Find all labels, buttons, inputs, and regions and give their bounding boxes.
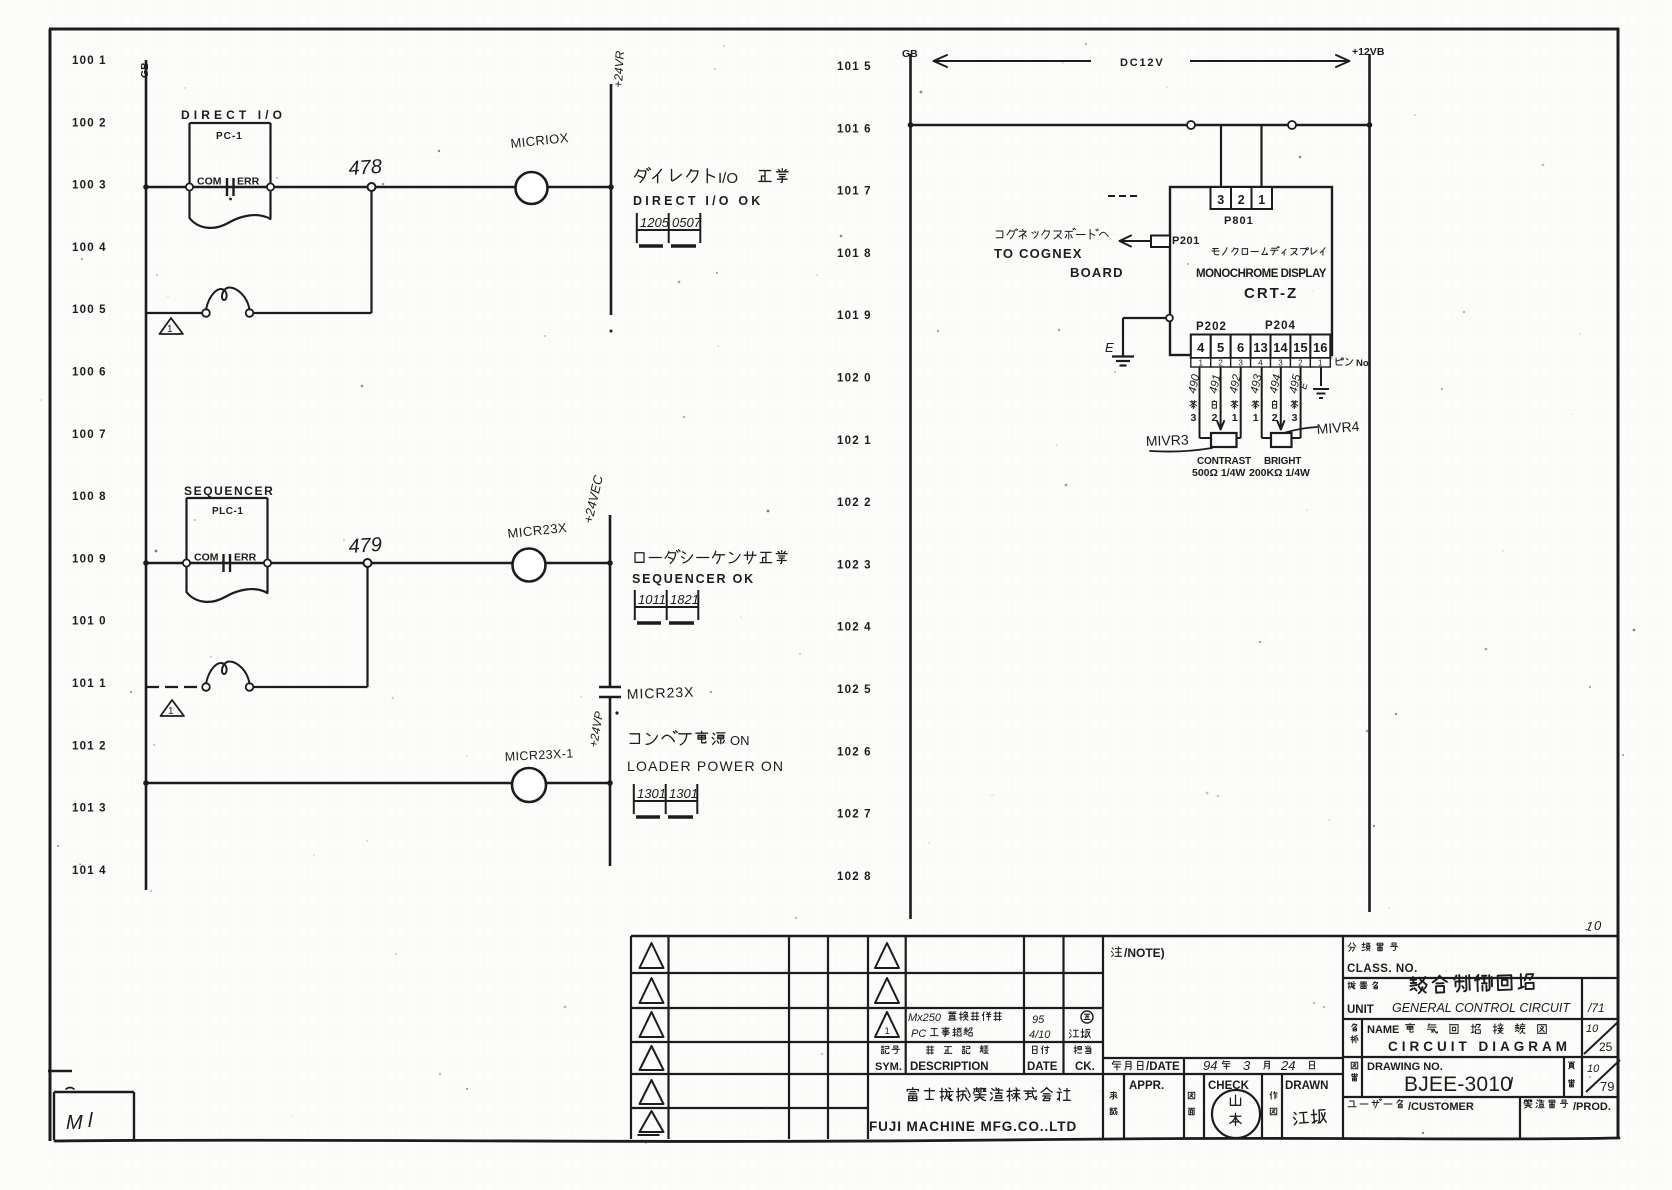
svg-text:102 0: 102 0 [837,373,872,385]
svg-text:1: 1 [167,324,173,335]
svg-text:2: 2 [1218,359,1223,368]
svg-text:CIRCUIT DIAGRAM: CIRCUIT DIAGRAM [1388,1039,1571,1054]
svg-text:I/O: I/O [718,170,738,187]
svg-text:10: 10 [1586,1023,1599,1035]
svg-text:1: 1 [168,706,174,717]
svg-text:COM: COM [197,176,222,188]
svg-text:BJEE-3010: BJEE-3010 [1404,1073,1512,1096]
svg-text:CLASS. NO.: CLASS. NO. [1347,963,1418,975]
svg-text:1: 1 [1253,412,1259,424]
svg-text:PLC-1: PLC-1 [212,506,243,517]
svg-text:2: 2 [1212,412,1218,424]
svg-text:101 4: 101 4 [72,865,107,877]
svg-text:NAME: NAME [1367,1024,1399,1036]
svg-text:SYM.: SYM. [875,1061,902,1073]
svg-text:/PROD.: /PROD. [1573,1101,1611,1113]
svg-text:No.: No. [1356,358,1371,369]
svg-text:GB: GB [139,62,151,78]
svg-text:2: 2 [1272,412,1278,424]
svg-text:DRAWING NO.: DRAWING NO. [1367,1061,1443,1073]
svg-text:0507: 0507 [672,215,702,230]
svg-text:101 8: 101 8 [837,248,872,260]
svg-text:10: 10 [1587,1063,1600,1075]
svg-text:1301: 1301 [669,786,698,801]
svg-text:102 1: 102 1 [837,435,872,447]
svg-text:ON: ON [730,733,750,748]
svg-text:100 2: 100 2 [72,117,107,129]
svg-text:100 1: 100 1 [72,55,107,67]
svg-text:ERR: ERR [234,552,257,564]
svg-text:SEQUENCER: SEQUENCER [184,484,274,498]
svg-text:4/10: 4/10 [1029,1029,1051,1041]
svg-text:102 4: 102 4 [837,622,872,634]
svg-text:COM: COM [194,552,219,564]
svg-text:MONOCHROME DISPLAY: MONOCHROME DISPLAY [1196,268,1327,280]
svg-text:M: M [66,1112,83,1134]
svg-text:102 6: 102 6 [837,746,872,758]
svg-text:DIRECT I/O OK: DIRECT I/O OK [633,194,764,208]
svg-text:13: 13 [1253,340,1267,355]
svg-text:478: 478 [348,156,383,180]
svg-text:500Ω 1/4W: 500Ω 1/4W [1192,467,1245,479]
svg-text:100 7: 100 7 [72,429,107,441]
svg-text:DATE: DATE [1027,1061,1058,1073]
svg-text:3: 3 [1217,193,1224,207]
svg-text:102 8: 102 8 [837,871,872,883]
svg-text:3: 3 [1292,412,1298,424]
svg-text:101 9: 101 9 [837,310,872,322]
svg-text:LOADER POWER ON: LOADER POWER ON [627,758,784,774]
svg-text:1: 1 [1232,412,1238,424]
svg-text:3: 3 [1238,359,1243,368]
svg-text:DRAWN: DRAWN [1285,1080,1328,1092]
svg-text:/CUSTOMER: /CUSTOMER [1408,1101,1474,1113]
svg-text:FUJI MACHINE MFG.CO..LTD: FUJI MACHINE MFG.CO..LTD [869,1119,1077,1134]
svg-text:101 6: 101 6 [837,123,872,135]
svg-text:1011: 1011 [638,592,666,607]
svg-text:E: E [1105,340,1114,355]
svg-text:14: 14 [1273,340,1288,355]
svg-text:4: 4 [1258,359,1263,368]
svg-text:BOARD: BOARD [1070,265,1124,280]
svg-text:24: 24 [1280,1058,1295,1073]
svg-text:BRIGHT: BRIGHT [1264,456,1301,467]
svg-text:1821: 1821 [670,592,699,607]
svg-text:MICR23X: MICR23X [627,684,695,702]
svg-text:15: 15 [1293,340,1307,355]
svg-text:1301: 1301 [637,786,666,801]
svg-text:P201: P201 [1172,235,1200,247]
svg-text:102 3: 102 3 [837,559,872,571]
svg-text:100 4: 100 4 [72,242,107,254]
svg-text:/71: /71 [1587,1001,1605,1015]
svg-text:CK.: CK. [1075,1061,1095,1073]
svg-text:ERR: ERR [237,176,260,188]
svg-text:DC12V: DC12V [1120,57,1164,69]
svg-text:100 9: 100 9 [72,553,107,565]
svg-text:MIVR4: MIVR4 [1316,418,1360,437]
svg-text:TO COGNEX: TO COGNEX [994,246,1083,261]
svg-text:P202: P202 [1196,321,1227,333]
svg-text:101 5: 101 5 [837,61,872,73]
svg-text:CRT-Z: CRT-Z [1244,285,1298,302]
svg-text:PC-1: PC-1 [216,131,243,142]
svg-text:5: 5 [1217,340,1224,355]
svg-text:1: 1 [1198,359,1203,368]
svg-text:DIRECT I/O: DIRECT I/O [181,108,286,122]
svg-text:102 2: 102 2 [837,497,872,509]
svg-text:100 8: 100 8 [72,491,107,503]
svg-text:4: 4 [1197,340,1205,355]
svg-text:101 1: 101 1 [72,678,107,690]
svg-text:3: 3 [1191,412,1197,424]
svg-text:3: 3 [1278,359,1283,368]
svg-text:94: 94 [1203,1058,1217,1073]
svg-text:479: 479 [348,534,383,558]
svg-text:1: 1 [885,1026,890,1037]
svg-text:SEQUENCER OK: SEQUENCER OK [632,572,755,586]
svg-text:UNIT: UNIT [1347,1004,1374,1016]
svg-text:16: 16 [1313,340,1327,355]
svg-text:Mx250: Mx250 [908,1012,942,1024]
svg-text:101 2: 101 2 [72,740,107,752]
svg-text:100 5: 100 5 [72,304,107,316]
svg-text:+12VB: +12VB [1352,46,1385,58]
svg-text:2: 2 [1238,193,1245,207]
svg-text:/DATE: /DATE [1146,1061,1180,1073]
svg-text:101 3: 101 3 [72,803,107,815]
svg-text:100 3: 100 3 [72,180,107,192]
svg-text:102 5: 102 5 [837,684,872,696]
svg-text:200KΩ 1/4W: 200KΩ 1/4W [1249,467,1310,479]
svg-text:MIVR3: MIVR3 [1146,432,1190,449]
svg-text:102 7: 102 7 [837,809,872,821]
svg-text:PC: PC [911,1028,926,1040]
svg-text:6: 6 [1237,340,1244,355]
svg-text:25: 25 [1599,1040,1613,1054]
svg-text:P801: P801 [1224,215,1254,227]
svg-text:/NOTE): /NOTE) [1124,946,1165,960]
svg-text:2: 2 [1298,359,1303,368]
svg-text:APPR.: APPR. [1129,1080,1164,1092]
svg-text:GB: GB [902,48,918,60]
svg-text:1: 1 [1318,359,1323,368]
svg-text:79: 79 [1600,1079,1614,1094]
svg-text:101 7: 101 7 [837,186,872,198]
svg-text:101 0: 101 0 [72,616,107,628]
svg-text:P204: P204 [1265,320,1296,332]
svg-text:l: l [88,1110,93,1132]
svg-text:CONTRAST: CONTRAST [1197,456,1251,467]
svg-text:1: 1 [1258,193,1265,207]
svg-text:0: 0 [1594,918,1602,933]
svg-text:DESCRIPTION: DESCRIPTION [910,1061,989,1073]
svg-text:95: 95 [1032,1014,1045,1026]
svg-text:3: 3 [1243,1058,1251,1073]
svg-text:1205: 1205 [640,215,670,230]
svg-text:+24VR: +24VR [611,50,627,88]
svg-text:100 6: 100 6 [72,367,107,379]
svg-text:GENERAL CONTROL CIRCUIT: GENERAL CONTROL CIRCUIT [1392,1001,1571,1015]
